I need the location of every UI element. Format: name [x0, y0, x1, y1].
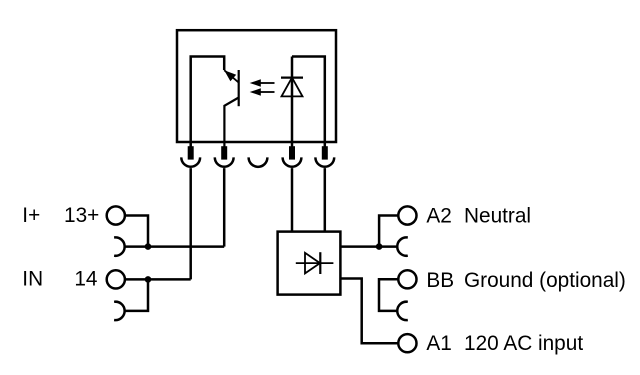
socket arc below 13+: [114, 237, 125, 255]
light arrow (lower): [250, 88, 275, 95]
phototransistor Q1: [224, 70, 239, 147]
wire: IN node down to arc below 14: [125, 279, 148, 311]
LED D1 (triangle): [282, 78, 303, 97]
wire: LED cathode top over to right side down to terminal plug B: [292, 57, 325, 148]
socket arc below 14: [114, 302, 125, 320]
terminal circle A2: [398, 206, 416, 224]
wire: 14 circle to socket 1 wire: [125, 278, 191, 281]
terminal socket 1 (plug): [188, 146, 194, 159]
wire: socket 2 down to I+ node: [223, 168, 226, 247]
terminal circle A1: [398, 334, 416, 352]
junction dot (I+ node): [145, 243, 152, 250]
wire: 13+ circle to node: [125, 216, 148, 247]
wire: BB circle bracket to BB arc: [379, 279, 399, 311]
optocoupler U1 package outline: [177, 30, 336, 142]
svg-text:120 AC input: 120 AC input: [464, 332, 583, 355]
wire: terminal 13 plug up left side to phototransistor emitter corner: [191, 57, 225, 148]
terminal socket 2 (arc): [215, 157, 234, 166]
wire: I+ arc to socket 2 wire: [125, 245, 224, 248]
LED D1 (cathode bar): [281, 76, 303, 78]
svg-text:BB: BB: [426, 269, 454, 292]
terminal circle 14: [107, 270, 125, 288]
rectifier diode triangle: [305, 253, 320, 274]
terminal socket 2 (plug): [221, 146, 227, 159]
svg-text:Ground (optional): Ground (optional): [464, 269, 626, 292]
terminal socket 4 (arc): [283, 157, 302, 166]
svg-text:IN: IN: [22, 267, 43, 290]
wire: socket 5 down to rectifier: [324, 168, 327, 232]
Q1 base bar: [238, 70, 240, 106]
wire: A2 node up to A2 circle: [379, 216, 398, 247]
wire: socket 4 down to rectifier: [291, 168, 294, 232]
rectifier diode horizontal lead: [296, 262, 334, 264]
svg-text:I+: I+: [22, 204, 40, 227]
svg-text:A1: A1: [426, 332, 451, 355]
terminal socket 3 (arc, unused): [249, 157, 268, 166]
terminal socket 5 (plug): [322, 146, 328, 159]
wire: LED vertical lead down to terminal plug A: [291, 57, 294, 148]
wire: rectifier output to A2 arc: [340, 245, 398, 248]
Q1 emitter arrowhead: [224, 70, 236, 81]
socket arc below A2: [397, 237, 408, 255]
junction dot (IN node): [145, 276, 152, 283]
wire: socket 1 down to IN node: [189, 168, 192, 279]
terminal circle BB: [398, 270, 416, 288]
wire: rectifier output to A1 circle: [340, 279, 398, 344]
svg-text:Neutral: Neutral: [464, 204, 531, 227]
terminal socket 1 (arc): [181, 157, 200, 166]
terminal socket 4 (plug): [289, 146, 295, 159]
light arrow (upper): [250, 79, 275, 86]
svg-text:A2: A2: [426, 204, 451, 227]
junction dot (A2 node): [376, 243, 383, 250]
svg-text:13+: 13+: [64, 204, 99, 227]
terminal socket 5 (arc): [315, 157, 334, 166]
Q1 emitter diagonal: [224, 70, 239, 82]
svg-text:14: 14: [74, 267, 97, 290]
terminal circle 13+: [107, 206, 125, 224]
rectifier diode cathode bar: [319, 252, 321, 274]
bridge rectifier box: [278, 232, 341, 295]
Q1 collector diagonal: [224, 98, 238, 148]
socket arc below BB: [397, 302, 408, 320]
